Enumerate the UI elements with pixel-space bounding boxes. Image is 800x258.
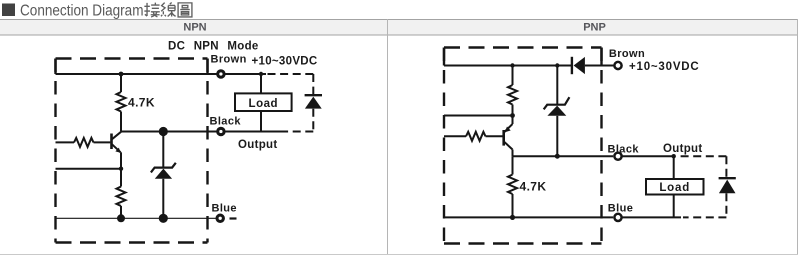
zener diode ZD1 anode triangle <box>155 169 172 179</box>
column divider <box>387 19 388 255</box>
wire load branch bottom vertical <box>260 111 262 132</box>
series diode D2 triangle <box>574 57 585 74</box>
resistor bias (PNP) <box>508 85 517 105</box>
resistor emitter <box>117 187 126 207</box>
wire bias branch lower <box>512 105 514 116</box>
wire black output rail (PNP) <box>513 155 614 157</box>
svg-text:+10~30VDC: +10~30VDC <box>252 56 318 68</box>
wire zener top <box>162 132 164 168</box>
wire collector branch lower <box>120 112 122 132</box>
svg-text:NPN: NPN <box>183 22 206 34</box>
transistor Q1 collector diagonal <box>112 132 121 139</box>
dashed wire external diode upper vertical (PNP) <box>725 156 727 177</box>
zener diode ZD1 cathode bar <box>151 163 176 173</box>
dashed wire top to external diode (PNP) <box>679 155 726 157</box>
resistor 4.7K (collector pull-up) <box>117 92 126 112</box>
wire brown supply rail <box>56 73 217 75</box>
external diode D1 triangle <box>305 97 322 109</box>
wire emitter vertical (PNP) <box>512 116 514 125</box>
wire internal rail to bias node <box>444 115 513 117</box>
resistor base (horizontal) <box>74 138 94 147</box>
node junction zener/output (PNP) <box>555 154 560 159</box>
sensor enclosure dashed box <box>56 57 208 59</box>
wire blue extension solid (PNP) <box>621 216 681 218</box>
node emitter junction <box>119 167 123 171</box>
external diode D3 cathode bar <box>719 177 736 179</box>
wire 4.7K upper (PNP) <box>512 156 514 174</box>
terminal brown (PNP) <box>614 62 621 69</box>
wire black output rail <box>121 131 217 133</box>
node junction load/output (PNP) <box>672 154 676 158</box>
wire collector to output corner <box>512 150 514 157</box>
wire emitter feedback rail <box>56 168 122 170</box>
node junction zener/0V <box>159 214 168 223</box>
header row background <box>0 20 797 35</box>
wire blue 0V rail (thin) <box>56 217 218 219</box>
svg-text:Brown: Brown <box>609 48 645 60</box>
transistor Q2 collector diagonal <box>504 142 512 150</box>
svg-text:Black: Black <box>608 143 640 155</box>
dashed wire bottom from external diode <box>279 131 313 133</box>
node junction on brown rail <box>119 72 124 77</box>
terminal blue <box>217 215 223 221</box>
resistor 4.7K (PNP) <box>508 175 517 195</box>
transistor Q1 emitter arrow <box>115 148 121 153</box>
svg-text:Output: Output <box>238 139 277 151</box>
wire output extension solid <box>225 131 281 133</box>
transistor Q1 base bar <box>110 134 113 150</box>
dashed wire bottom from external diode (PNP) <box>683 216 726 218</box>
node junction emitter/0V <box>117 214 125 222</box>
wire base (PNP) <box>444 135 466 137</box>
sensor enclosure dashed box (PNP) <box>444 46 602 48</box>
svg-text:+10~30VDC: +10~30VDC <box>629 61 700 73</box>
dashed wire external diode lower vertical (PNP) <box>725 193 727 217</box>
svg-text:Load: Load <box>659 182 690 194</box>
terminal brown <box>218 71 224 77</box>
wire load branch bottom vertical (PNP) <box>673 195 675 218</box>
svg-text:DC NPN Mode: DC NPN Mode <box>168 41 259 53</box>
dashed wire top to external diode <box>266 73 313 75</box>
load box (PNP) <box>646 179 704 195</box>
node junction zener/output <box>159 127 168 136</box>
svg-text:Connection Diagram: Connection Diagram <box>20 3 144 20</box>
dashed wire external diode lower vertical <box>312 109 314 132</box>
wire base <box>56 141 75 143</box>
svg-text:Blue: Blue <box>212 203 237 215</box>
svg-text:4.7K: 4.7K <box>128 96 155 110</box>
series diode D2 cathode bar <box>571 57 573 74</box>
CJK 接 <box>144 3 159 17</box>
transistor Q2 emitter diagonal <box>504 124 512 132</box>
svg-text:Output: Output <box>663 143 702 155</box>
external diode D1 cathode bar <box>305 94 322 96</box>
wire base to bar <box>94 141 111 143</box>
zener diode ZD2 cathode bar <box>544 97 570 109</box>
svg-text:Black: Black <box>210 116 242 128</box>
dashed wire external diode upper vertical <box>312 74 314 95</box>
right table border <box>797 19 798 255</box>
external diode D3 triangle <box>719 180 736 194</box>
resistor base (PNP horizontal) <box>466 132 486 141</box>
svg-text:Load: Load <box>249 98 278 110</box>
CJK 圖 <box>178 3 192 17</box>
wire diode to brown terminal <box>585 65 614 67</box>
node junction bias resistor/brown <box>510 63 514 67</box>
terminal blue (PNP) <box>614 214 621 221</box>
wire zener bottom (PNP) <box>556 116 558 156</box>
zener diode ZD2 anode triangle <box>547 106 566 116</box>
node junction 4.7K/blue <box>510 215 515 220</box>
svg-text:Blue: Blue <box>608 202 633 214</box>
wire load branch top vertical <box>260 74 262 93</box>
wire brown extension solid <box>225 73 266 75</box>
node junction load/brown <box>259 72 263 76</box>
table top border <box>0 19 798 20</box>
wire bias branch upper <box>512 66 514 86</box>
header bottom border <box>0 35 798 36</box>
svg-text:Brown: Brown <box>211 54 247 66</box>
wire output extension solid (PNP) <box>622 155 676 157</box>
transistor Q2 base bar <box>502 130 505 146</box>
svg-text:PNP: PNP <box>583 22 606 34</box>
wire brown supply rail (PNP) <box>444 65 572 67</box>
wire emitter to 0V rail <box>120 206 122 218</box>
wire load branch top vertical (PNP) <box>673 156 675 179</box>
load box <box>235 93 292 111</box>
wire collector branch upper <box>120 74 122 92</box>
wire zener top (PNP) <box>556 66 558 105</box>
minus sign at blue terminal <box>230 217 237 219</box>
wire blue 0V rail (PNP) <box>444 216 613 218</box>
transistor Q1 emitter diagonal <box>112 144 121 152</box>
bottom table border <box>0 254 798 255</box>
wire base to bar (PNP) <box>486 135 503 137</box>
transistor Q2 emitter arrow (PNP points into base) <box>505 127 511 133</box>
title bullet square <box>2 4 15 17</box>
wire 4.7K lower (PNP) <box>512 194 514 217</box>
terminal black <box>218 128 224 134</box>
wire zener bottom <box>162 179 164 219</box>
wire emitter vertical <box>120 152 122 186</box>
terminal black (PNP) <box>614 153 621 160</box>
CJK 線 <box>161 2 176 16</box>
node junction bias/emitter <box>510 113 515 118</box>
node junction zener/brown <box>555 63 559 67</box>
svg-text:4.7K: 4.7K <box>520 180 547 194</box>
